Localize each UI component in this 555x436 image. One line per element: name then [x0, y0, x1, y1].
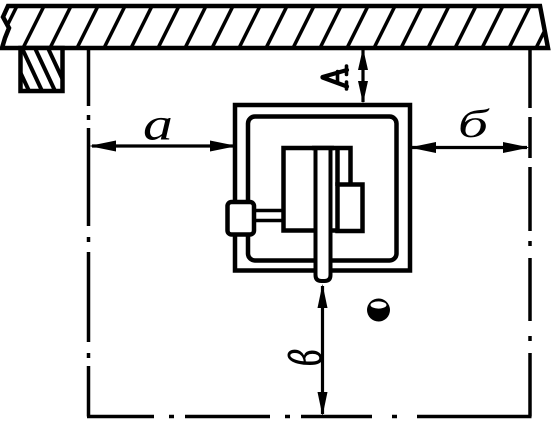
- svg-text:б: б: [458, 101, 491, 146]
- dimension a: line: [92, 144, 234, 147]
- svg-text:а: а: [143, 99, 173, 150]
- dimension v: top arrowhead: [318, 284, 328, 308]
- dimension b: right arrowhead: [503, 142, 530, 153]
- wall stub block (hatched): [8, 46, 69, 93]
- bottom centerline (dash-dot): [87, 415, 532, 419]
- device inner square: [248, 117, 397, 261]
- label A (rotated): [323, 66, 348, 89]
- connector line bottom: [254, 219, 283, 223]
- dimension v: line: [321, 286, 324, 414]
- ball: [367, 299, 390, 322]
- dimension b: left arrowhead: [410, 142, 437, 153]
- mechanism body: [284, 148, 351, 231]
- dimension A: line: [361, 49, 364, 102]
- mechanism top edge over pipe: [312, 146, 334, 151]
- dimension a: left arrowhead: [89, 141, 116, 152]
- left centerline (dash-dot): [87, 47, 91, 417]
- ceiling slab (hatched bar): [0, 4, 555, 48]
- divider line right of pipe: [335, 148, 340, 186]
- pipe (vertical stem): [316, 148, 331, 281]
- svg-text:в: в: [257, 349, 338, 366]
- dimension A: bottom arrowhead: [358, 81, 368, 104]
- right centerline (dash-dot): [528, 47, 532, 417]
- left terminal box: [228, 202, 255, 235]
- device outer square: [235, 105, 410, 271]
- connector line top: [254, 209, 283, 213]
- dimension v: bottom arrowhead: [318, 392, 328, 416]
- dimension b: line: [412, 146, 527, 149]
- mechanism lower-right part: [338, 185, 363, 232]
- dimension A: top arrowhead: [358, 48, 368, 70]
- dimension a: right arrowhead: [210, 141, 237, 152]
